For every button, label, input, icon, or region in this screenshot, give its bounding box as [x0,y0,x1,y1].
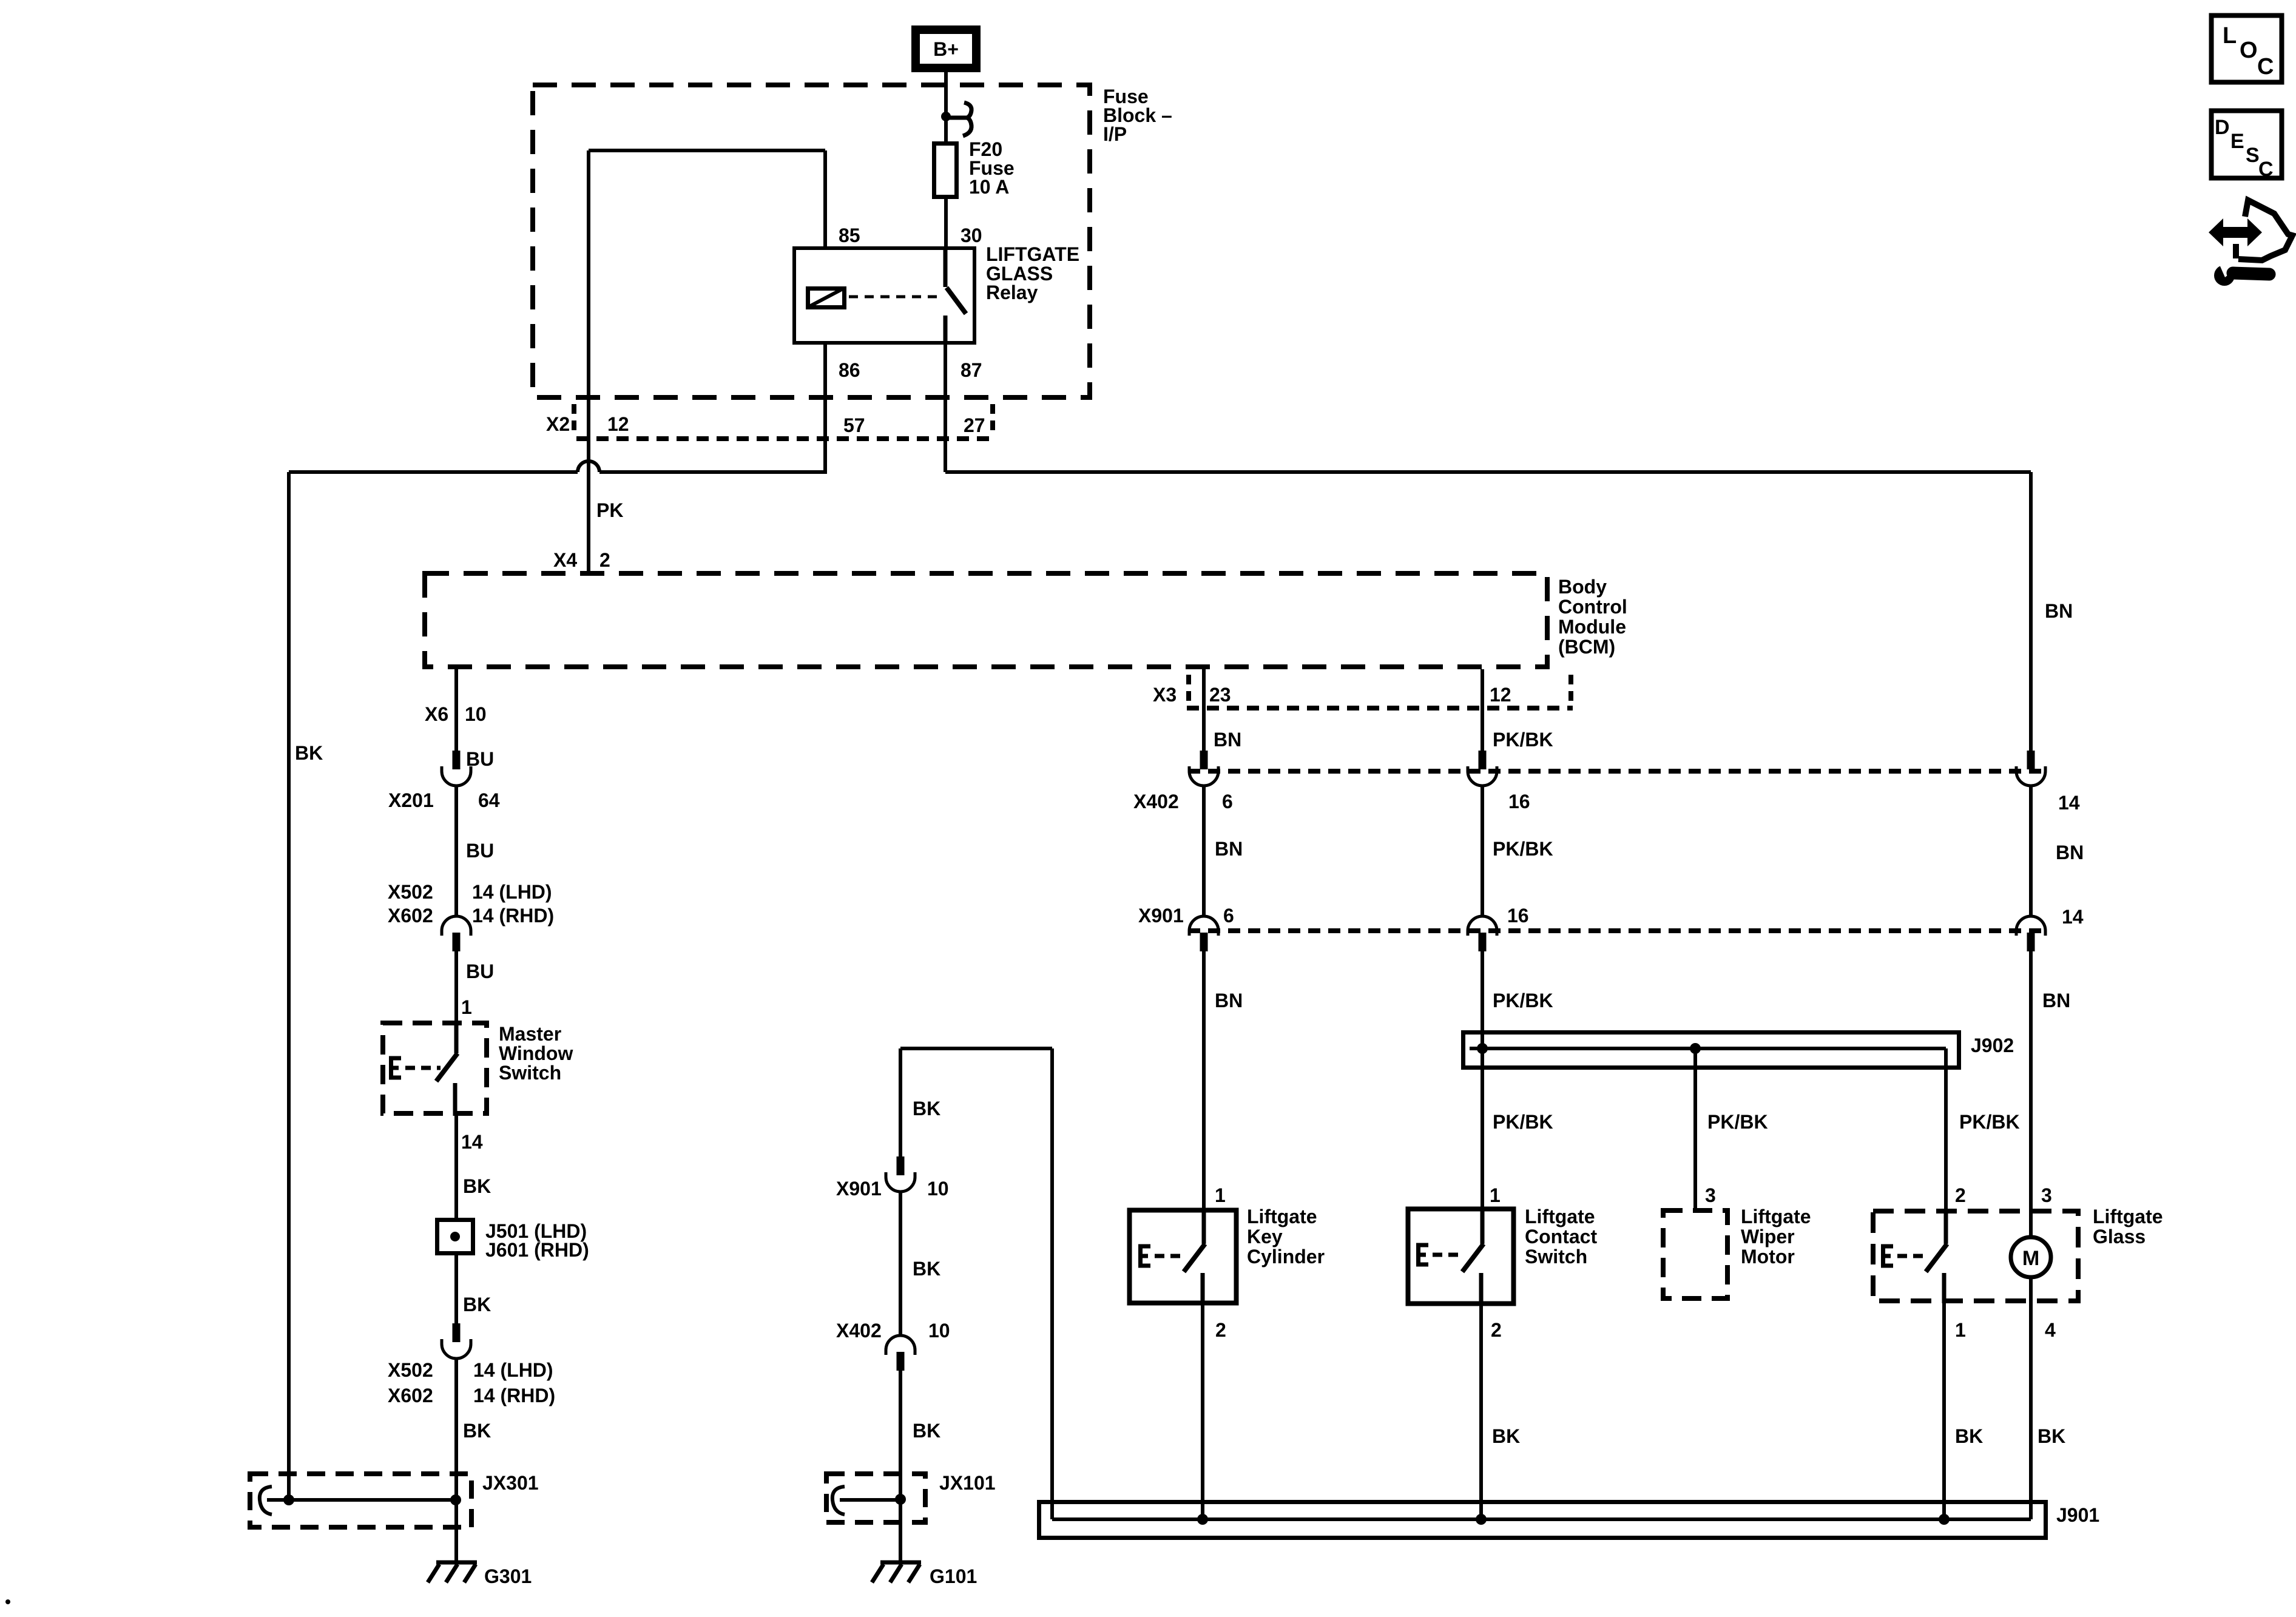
svg-text:BK: BK [2038,1425,2065,1447]
svg-text:PK/BK: PK/BK [1493,1111,1553,1133]
svg-text:S: S [2246,144,2260,167]
svg-text:PK/BK: PK/BK [1493,838,1553,860]
svg-text:2: 2 [1215,1319,1226,1341]
svg-text:14 (RHD): 14 (RHD) [473,1385,555,1406]
svg-text:Liftgate: Liftgate [1247,1206,1317,1227]
svg-text:PK/BK: PK/BK [1707,1111,1768,1133]
svg-text:LIFTGATE: LIFTGATE [986,243,1079,265]
svg-text:X502: X502 [388,881,433,903]
svg-text:X4: X4 [553,549,577,571]
svg-text:Wiper: Wiper [1741,1226,1795,1247]
svg-text:Motor: Motor [1741,1246,1795,1268]
svg-text:1: 1 [1215,1184,1226,1206]
svg-text:23: 23 [1209,684,1231,706]
svg-text:Contact: Contact [1525,1226,1597,1247]
svg-text:30: 30 [961,224,982,246]
svg-text:BK: BK [1955,1425,1983,1447]
svg-text:BU: BU [466,748,494,770]
svg-text:Body: Body [1558,576,1607,598]
svg-text:16: 16 [1507,905,1529,927]
svg-text:14 (LHD): 14 (LHD) [473,1359,553,1381]
svg-text:PK: PK [596,499,623,521]
svg-text:27: 27 [964,414,985,436]
svg-text:BK: BK [463,1294,491,1315]
svg-text:PK/BK: PK/BK [1493,729,1553,751]
svg-text:Glass: Glass [2093,1226,2146,1247]
svg-text:3: 3 [2041,1184,2052,1206]
svg-text:X6: X6 [425,703,448,725]
svg-text:BK: BK [1492,1425,1520,1447]
svg-text:Switch: Switch [1525,1246,1587,1268]
svg-text:PK/BK: PK/BK [1493,990,1553,1011]
svg-text:X602: X602 [388,1385,433,1406]
svg-text:Master: Master [499,1023,561,1045]
svg-text:BN: BN [2042,990,2070,1011]
svg-text:1: 1 [461,996,472,1018]
svg-text:BK: BK [913,1420,940,1442]
svg-text:BU: BU [466,840,494,862]
svg-text:87: 87 [961,359,982,381]
svg-text:12: 12 [1490,684,1511,706]
svg-text:Cylinder: Cylinder [1247,1246,1325,1268]
svg-text:16: 16 [1508,791,1530,812]
svg-text:14 (RHD): 14 (RHD) [472,905,554,927]
svg-text:BN: BN [2056,842,2084,863]
svg-text:BK: BK [913,1258,940,1280]
svg-text:3: 3 [1705,1184,1716,1206]
svg-text:J902: J902 [1971,1035,2014,1056]
svg-text:X3: X3 [1153,684,1177,706]
svg-text:57: 57 [843,414,865,436]
svg-text:D: D [2215,116,2230,139]
svg-text:85: 85 [839,224,860,246]
svg-text:I/P: I/P [1103,123,1127,145]
svg-text:B+: B+ [933,38,959,60]
svg-text:86: 86 [839,359,860,381]
svg-text:X901: X901 [836,1178,882,1200]
svg-text:L: L [2223,23,2237,49]
svg-text:Liftgate: Liftgate [2093,1206,2163,1227]
svg-text:6: 6 [1222,791,1233,812]
svg-text:2: 2 [599,549,610,571]
svg-text:14: 14 [461,1131,483,1153]
svg-text:J901: J901 [2056,1504,2099,1526]
svg-text:10 A: 10 A [969,176,1009,198]
svg-text:X901: X901 [1138,905,1184,927]
svg-text:1: 1 [1490,1184,1501,1206]
svg-text:X201: X201 [388,789,434,811]
svg-text:10: 10 [927,1178,949,1200]
svg-text:14: 14 [2058,792,2080,814]
svg-text:4: 4 [2045,1319,2056,1341]
svg-text:10: 10 [928,1320,950,1342]
svg-text:JX101: JX101 [939,1472,996,1494]
svg-text:BN: BN [1214,729,1241,751]
svg-text:2: 2 [1491,1319,1502,1341]
svg-text:(BCM): (BCM) [1558,636,1615,658]
svg-text:14 (LHD): 14 (LHD) [472,881,552,903]
svg-text:BN: BN [2045,600,2073,622]
svg-text:Window: Window [499,1042,573,1064]
svg-text:J601 (RHD): J601 (RHD) [485,1239,589,1261]
svg-text:Key: Key [1247,1226,1283,1247]
svg-text:G301: G301 [484,1565,532,1587]
svg-text:X502: X502 [388,1359,433,1381]
svg-text:G101: G101 [930,1565,977,1587]
svg-text:X402: X402 [836,1320,882,1342]
svg-text:BU: BU [466,960,494,982]
svg-text:BN: BN [1215,990,1243,1011]
svg-text:Module: Module [1558,616,1626,638]
svg-text:Liftgate: Liftgate [1525,1206,1595,1227]
svg-text:E: E [2230,130,2244,153]
svg-text:BK: BK [913,1098,940,1119]
svg-text:X602: X602 [388,905,433,927]
svg-text:BK: BK [463,1420,491,1442]
svg-text:1: 1 [1955,1319,1966,1341]
svg-text:JX301: JX301 [482,1472,539,1494]
svg-text:BK: BK [295,742,323,764]
svg-text:6: 6 [1223,905,1234,927]
svg-text:X402: X402 [1133,791,1179,812]
svg-text:Control: Control [1558,596,1627,618]
svg-text:Switch: Switch [499,1062,561,1084]
svg-text:2: 2 [1955,1184,1966,1206]
svg-text:M: M [2022,1247,2039,1270]
svg-text:C: C [2258,158,2274,181]
svg-text:O: O [2240,38,2258,63]
svg-text:PK/BK: PK/BK [1959,1111,2020,1133]
svg-text:C: C [2257,54,2274,79]
svg-text:14: 14 [2062,906,2084,928]
svg-text:12: 12 [607,413,629,435]
svg-text:BK: BK [463,1175,491,1197]
svg-text:Relay: Relay [986,282,1038,303]
svg-text:64: 64 [478,789,500,811]
svg-text:X2: X2 [546,413,570,435]
svg-text:BN: BN [1215,838,1243,860]
svg-text:Liftgate: Liftgate [1741,1206,1811,1227]
svg-text:10: 10 [465,703,487,725]
